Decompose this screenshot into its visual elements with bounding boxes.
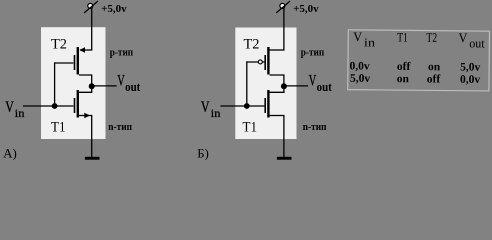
transistor T2 (circuit B, p-type) channel bar bbox=[267, 47, 269, 75]
svg-text:on: on bbox=[397, 73, 410, 85]
svg-text:out: out bbox=[317, 79, 333, 94]
table row 2: 5,0v on off 0,0v bbox=[350, 73, 480, 86]
svg-text:+5,0v: +5,0v bbox=[101, 3, 127, 15]
table row 1: 0,0v off on 5,0v bbox=[349, 60, 480, 73]
svg-text:5,0v: 5,0v bbox=[460, 61, 480, 73]
transistor T2 (circuit A, p-type) channel bar bbox=[77, 47, 79, 75]
svg-text:5,0v: 5,0v bbox=[350, 73, 370, 85]
transistor T1 (circuit B) gate bar bbox=[264, 98, 266, 113]
transistor T1 (circuit A, n-type) channel bar bbox=[77, 90, 79, 118]
wire: T1 source lead (circuit B) bbox=[270, 115, 285, 117]
svg-text:V: V bbox=[201, 99, 210, 116]
svg-text:Б): Б) bbox=[197, 146, 209, 161]
circuit B background box bbox=[235, 28, 296, 140]
label V_out (circuit A) bbox=[117, 73, 141, 94]
svg-text:out: out bbox=[469, 36, 485, 50]
transistor T1 (circuit A) gate bar bbox=[74, 98, 76, 113]
label V_out (circuit B) bbox=[309, 73, 333, 94]
ground symbol (circuit B) bbox=[277, 157, 292, 160]
svg-text:+5,0v: +5,0v bbox=[293, 3, 319, 15]
wire: rail down to ground (circuit B) bbox=[283, 116, 285, 158]
inversion bubble on T2 gate (circuit B) bbox=[258, 60, 262, 64]
svg-text:off: off bbox=[427, 73, 441, 85]
output node dot (circuit A) bbox=[89, 83, 95, 89]
circuit A background box bbox=[41, 27, 106, 139]
table header V_in bbox=[353, 29, 375, 49]
svg-text:in: in bbox=[364, 35, 375, 49]
label V_in (circuit A) bbox=[5, 99, 24, 120]
svg-text:V: V bbox=[5, 99, 14, 116]
ground symbol (circuit A) bbox=[85, 157, 100, 160]
truth table border bbox=[348, 30, 490, 91]
wire: T1 drain lead to output (circuit A) bbox=[79, 86, 92, 92]
transistor T2 (circuit A) gate bar bbox=[74, 55, 76, 70]
output node dot (circuit B) bbox=[281, 83, 287, 89]
svg-text:n-тип: n-тип bbox=[108, 122, 132, 133]
svg-text:T1: T1 bbox=[243, 120, 258, 136]
svg-text:р-тип: р-тип bbox=[110, 47, 134, 58]
svg-text:V: V bbox=[309, 73, 317, 90]
supply terminal +5,0v (circuit A) bbox=[84, 1, 98, 13]
wire: rail down to ground (circuit A) bbox=[91, 116, 93, 158]
wire: T2 source lead to output (circuit A) bbox=[79, 75, 92, 86]
wire: gate riser (circuit B) bbox=[246, 61, 248, 106]
wire: V_in wire (circuit A) bbox=[23, 105, 73, 107]
svg-text:T1: T1 bbox=[51, 120, 66, 136]
svg-text:р-тип: р-тип bbox=[301, 47, 325, 58]
junction dot on gate wire (circuit B) bbox=[244, 103, 250, 109]
svg-text:А): А) bbox=[3, 146, 17, 161]
wire: T2 drain lead (circuit B) bbox=[269, 49, 284, 51]
svg-text:in: in bbox=[15, 106, 25, 120]
junction dot on gate wire (circuit A) bbox=[52, 103, 58, 109]
svg-text:T2: T2 bbox=[426, 30, 437, 45]
wire: T2 source lead to output (circuit B) bbox=[270, 75, 284, 86]
svg-text:V: V bbox=[458, 30, 468, 45]
wire: T1 drain lead to output (circuit B) bbox=[270, 86, 284, 92]
wire: output to V_out label (circuit A) bbox=[92, 85, 117, 87]
wire: T2 gate lead (circuit A) bbox=[54, 62, 73, 64]
wire: V_in wire (circuit B) bbox=[220, 105, 264, 107]
wire: gate riser (circuit A) bbox=[54, 62, 56, 106]
svg-text:T2: T2 bbox=[244, 37, 260, 53]
svg-text:off: off bbox=[397, 61, 411, 73]
svg-text:out: out bbox=[125, 79, 141, 94]
svg-text:V: V bbox=[353, 29, 363, 44]
svg-text:n-тип: n-тип bbox=[303, 122, 327, 133]
svg-text:0,0v: 0,0v bbox=[349, 60, 369, 72]
svg-text:0,0v: 0,0v bbox=[460, 74, 480, 86]
wire: output to V_out label (circuit B) bbox=[284, 85, 308, 87]
label V_in (circuit B) bbox=[201, 99, 221, 120]
supply terminal +5,0v (circuit B) bbox=[276, 1, 290, 13]
wire: supply rail down to T2 drain (circuit A) bbox=[91, 8, 93, 51]
svg-text:T2: T2 bbox=[51, 37, 67, 53]
wire: supply rail down to T2 drain (circuit B) bbox=[283, 8, 285, 51]
table header V_out bbox=[458, 30, 485, 50]
transistor T2 (circuit B) gate bar bbox=[264, 55, 266, 70]
transistor T1 (circuit B, n-type) channel bar bbox=[267, 90, 269, 118]
wire: T1 source lead with arrow (circuit A) bbox=[79, 113, 92, 118]
svg-text:in: in bbox=[211, 106, 221, 120]
svg-text:V: V bbox=[117, 73, 125, 90]
wire: T2 gate lead (circuit B) bbox=[246, 61, 264, 63]
svg-text:T1: T1 bbox=[397, 29, 408, 44]
wire: T2 drain lead with arrow (circuit A) bbox=[79, 47, 92, 52]
svg-text:on: on bbox=[428, 61, 441, 73]
